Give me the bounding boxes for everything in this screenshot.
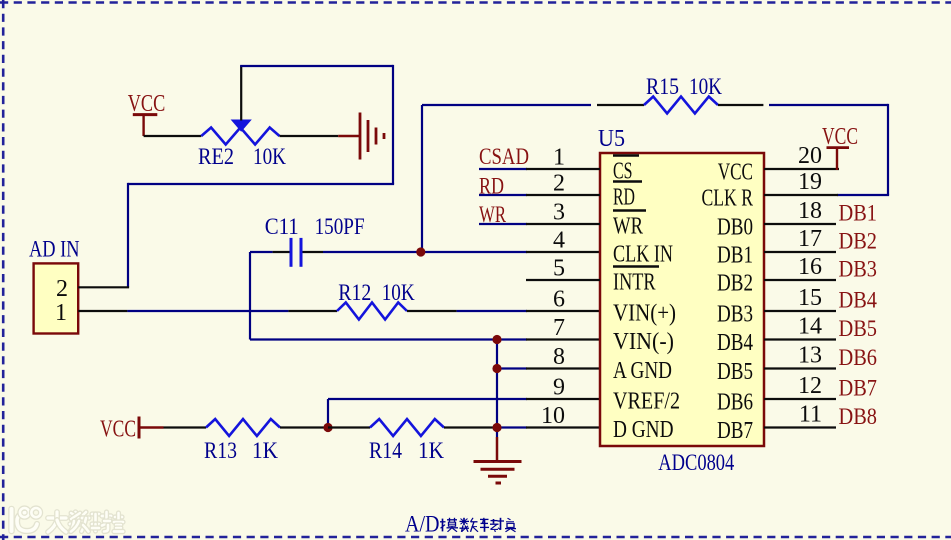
svg-text:VIN(-): VIN(-) [613,329,674,355]
wire vertical x=497 (VIN- to ground) [496,340,498,438]
wire D GND junction to chip pin 10 [497,426,600,428]
svg-text:DB6: DB6 [717,390,753,416]
svg-text:WR: WR [479,202,506,227]
wire R15 left (navy) [422,104,591,106]
power port VCC (bottom left) [100,417,164,443]
svg-text:1K: 1K [252,438,278,463]
wire R12 to chip pin 6 [457,310,600,312]
svg-text:U5: U5 [598,126,625,152]
svg-text:VCC: VCC [100,417,136,443]
wire VCC to RE2 [144,135,202,137]
pin number 9 (left) [553,375,565,401]
svg-text:DB2: DB2 [839,229,878,254]
caption A/D [405,512,440,537]
net label DB4 [839,288,878,313]
pin number 18 (right) [798,198,822,224]
potentiometer RE2 zigzag [201,128,279,145]
svg-text:10K: 10K [689,74,722,99]
label R14 [369,438,402,463]
svg-text:DB2: DB2 [717,271,753,297]
svg-text:2: 2 [56,276,68,302]
wire horizontal y=184 [128,183,394,185]
svg-text:15: 15 [798,285,822,311]
svg-text:14: 14 [798,314,822,340]
pin label VREF/2 [613,389,680,415]
net label CSAD [479,144,529,169]
svg-text:R13: R13 [204,438,237,463]
svg-text:DB5: DB5 [717,359,753,385]
chip pin 2 wire [479,194,600,196]
watermark logo [12,508,41,531]
pin label CLK IN [613,242,673,268]
svg-text:10K: 10K [253,144,286,169]
svg-text:DB0: DB0 [717,215,753,241]
svg-text:R12: R12 [338,280,371,305]
pin label DB6 [717,390,753,416]
IC U5 ADC0804 body [600,153,764,446]
value 1K (R13) [252,438,278,463]
chip pin 12 wire [764,398,836,400]
wire VREF/2 horizontal y=399 [328,398,600,400]
svg-text:DB1: DB1 [717,243,753,269]
power port VCC (top left) [128,91,166,136]
wire C11 left corner vertical x=250 [249,252,251,340]
pin label INTR [613,267,659,296]
svg-text:10K: 10K [382,280,415,305]
chip pin 19 wire [764,194,838,196]
chip pin 16 wire [764,279,836,281]
svg-text:7: 7 [553,315,565,341]
label R15 [646,74,679,99]
svg-text:6: 6 [553,287,565,313]
chip pin 13 wire [764,367,836,369]
R12 left lead [288,310,337,312]
pin label DB1 [717,243,753,269]
pin label RD [613,182,642,211]
wire wiper vertical (black) [240,66,242,121]
svg-text:1: 1 [553,145,565,171]
svg-text:17: 17 [798,226,822,252]
AD IN pin 2 wire [78,286,129,288]
page dashed border left [2,0,5,540]
chip pin 11 wire [764,426,836,428]
svg-text:DB5: DB5 [839,316,878,341]
svg-text:RD: RD [613,185,635,211]
svg-text:1K: 1K [418,438,444,463]
pin label VIN(+) [613,301,676,327]
value 1K (R14) [418,438,444,463]
capacitor C11 plates [291,238,301,267]
pin label WR [613,211,646,240]
pin number 17 (right) [798,226,822,252]
wire right vertical x=888 [887,104,889,195]
svg-text:DB6: DB6 [839,345,878,370]
pin label CLK R [702,186,754,212]
wire A GND pin 8 [497,367,600,369]
C11 right lead [303,251,324,253]
R15 left lead [597,104,644,106]
pin number 16 (right) [798,254,822,280]
pin number 2 (left) [553,171,565,197]
part name ADC0804 [658,450,734,475]
watermark text 大数跨境 [48,512,123,532]
resistor R14 zigzag [370,419,444,436]
pin number 10 (left) [541,403,565,429]
wire junction to chip pin 4 [422,251,600,253]
svg-text:150PF: 150PF [315,214,365,239]
pin label DB2 [717,271,753,297]
ground (right of RE2, rotated earth) [338,113,384,160]
svg-text:5: 5 [553,256,565,282]
svg-text:13: 13 [798,343,822,369]
svg-text:2: 2 [553,171,565,197]
pin number 6 (left) [553,287,565,313]
C11 left lead [273,251,290,253]
pin label CS [613,156,639,185]
svg-text:9: 9 [553,375,565,401]
R12 right lead [407,310,457,312]
svg-text:RD: RD [479,174,504,199]
net label DB1 [839,201,878,226]
pin number 14 (right) [798,314,822,340]
value 10K (RE2) [253,144,286,169]
net label RD [479,174,504,199]
svg-text:DB4: DB4 [839,288,878,313]
svg-text:10: 10 [541,403,565,429]
svg-text:18: 18 [798,198,822,224]
junction dot VIN- [492,335,501,344]
wire vertical x=421 from R15 to CLK IN junction [421,105,423,252]
pin number 4 (left) [553,228,565,254]
pin number 8 (left) [553,344,565,370]
label C11 [265,214,299,239]
pin number 15 (right) [798,285,822,311]
pin number 20 (right) [798,143,822,169]
svg-text:VCC: VCC [718,160,753,186]
svg-text:20: 20 [798,143,822,169]
svg-text:8: 8 [553,344,565,370]
net label DB8 [839,404,878,429]
pin number 1 (left) [553,145,565,171]
svg-text:CLK IN: CLK IN [613,242,673,268]
wire R14 to D GND junction [444,426,497,428]
wire top horizontal y=66 [240,65,393,67]
svg-text:C11: C11 [265,214,299,239]
caption 模数转换 (hand-drawn glyphs) [440,518,516,532]
svg-text:CSAD: CSAD [479,144,529,169]
svg-text:CLK R: CLK R [702,186,754,212]
svg-text:INTR: INTR [613,270,656,296]
wire C11 to CLK IN junction [323,251,422,253]
designator U5 [598,126,625,152]
chip pin 17 wire [764,251,836,253]
pin label VCC [718,160,753,186]
resistor R15 zigzag [644,97,718,114]
label R12 [338,280,371,305]
svg-text:16: 16 [798,254,822,280]
svg-text:DB3: DB3 [717,302,753,328]
svg-text:12: 12 [798,373,822,399]
wire C11 left (navy) [250,251,273,253]
net label DB7 [839,376,878,401]
label AD IN [29,237,80,262]
net label DB6 [839,345,878,370]
resistor R12 zigzag [337,303,407,320]
chip pin 3 wire [479,223,600,225]
svg-text:R14: R14 [369,438,402,463]
chip pin 15 wire [764,310,836,312]
svg-text:DB4: DB4 [717,330,753,356]
value 10K (R15) [689,74,722,99]
svg-text:ADC0804: ADC0804 [658,450,734,475]
svg-text:VCC: VCC [822,124,858,150]
wire AD IN pin1 to R12 (navy) [127,310,288,312]
wire left vertical x=128 down to AD IN pin 2 [127,183,129,287]
wire to pin 19 (navy) [837,194,889,196]
value 150PF [315,214,365,239]
wire RE2 right to ground [280,135,339,137]
wire VIN- horizontal y=339.5 [250,338,600,340]
net label DB2 [839,229,878,254]
pin number 13 (right) [798,343,822,369]
pin label DB0 [717,215,753,241]
pin label VIN(-) [613,329,674,355]
ground (below D GND junction) [474,437,522,483]
net label DB5 [839,316,878,341]
junction dot A GND [492,364,501,373]
AD IN pin 1 wire stub [78,310,127,312]
svg-text:DB7: DB7 [717,418,753,444]
svg-text:DB7: DB7 [839,376,878,401]
svg-text:19: 19 [798,169,822,195]
svg-text:VREF/2: VREF/2 [613,389,680,415]
page dashed border bottom [0,536,951,539]
page dashed border top [0,1,951,4]
svg-text:D GND: D GND [613,417,674,443]
pin label DB3 [717,302,753,328]
pin number 11 (right) [799,402,822,428]
svg-text:DB8: DB8 [839,404,878,429]
svg-text:4: 4 [553,228,565,254]
connector AD IN box [34,263,79,333]
svg-text:A/D: A/D [405,512,440,537]
svg-text:A GND: A GND [613,358,672,384]
svg-text:RE2: RE2 [198,144,234,169]
wire R13 to junction [280,426,328,428]
svg-text:VIN(+): VIN(+) [613,301,676,327]
wire VCC to R13 [164,426,207,428]
pin number 12 (right) [798,373,822,399]
pin number 7 (left) [553,315,565,341]
chip pin 20 wire [764,168,839,170]
chip pin 5 stub [526,279,600,281]
pin label A GND [613,358,672,384]
pin number 3 (left) [553,200,565,226]
svg-text:WR: WR [613,214,643,240]
wire junction to R14 [328,426,370,428]
value 10K (R12) [382,280,415,305]
svg-text:3: 3 [553,200,565,226]
junction dot D GND [492,423,501,432]
pin label D GND [613,417,674,443]
pin label DB4 [717,330,753,356]
svg-text:DB1: DB1 [839,201,878,226]
pin label DB7 [717,418,753,444]
junction dot R13/R14 [323,423,332,432]
net label WR [479,202,506,227]
svg-text:1: 1 [55,300,67,326]
label R13 [204,438,237,463]
svg-text:AD IN: AD IN [29,237,80,262]
chip pin 14 wire [764,338,836,340]
AD IN pin 1 number [55,300,67,326]
potentiometer RE2 wiper arrow [231,120,252,132]
junction dot CLK IN [416,247,425,256]
pin number 19 (right) [798,169,822,195]
resistor R13 zigzag [206,419,280,436]
wire right vertical x=393 [392,65,394,184]
chip pin 18 wire [764,223,836,225]
svg-text:R15: R15 [646,74,679,99]
net label DB3 [839,257,878,282]
wire riser x=328 to VREF/2 [327,399,329,428]
pin number 5 (left) [553,256,565,282]
power port VCC (top right) [822,124,858,170]
AD IN pin 2 number [56,276,68,302]
svg-text:11: 11 [799,402,822,428]
chip pin 1 wire [479,168,600,170]
wire R15 right to corner (navy) [769,104,888,106]
svg-text:DB3: DB3 [839,257,878,282]
R15 right lead [718,104,763,106]
pin label DB5 [717,359,753,385]
label RE2 [198,144,234,169]
